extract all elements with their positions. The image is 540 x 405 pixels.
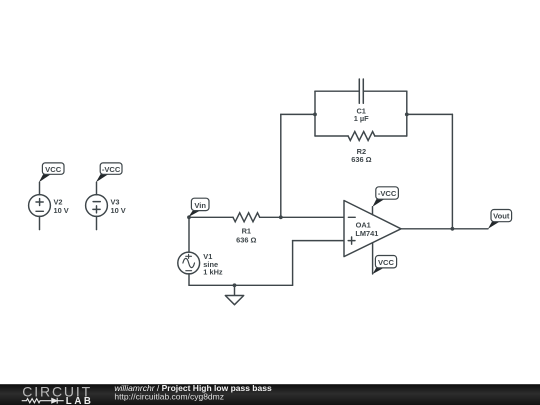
node junction output xyxy=(451,227,455,231)
node junction Vin xyxy=(187,215,191,219)
wire xyxy=(364,90,407,92)
svg-text:1 µF: 1 µF xyxy=(354,114,369,123)
wire xyxy=(372,243,374,274)
wire xyxy=(39,182,41,194)
wire xyxy=(189,216,233,218)
voltage source V3 xyxy=(86,195,108,217)
wire xyxy=(314,91,316,136)
wire xyxy=(280,114,282,217)
resistor R1 xyxy=(233,213,260,222)
svg-text:VCC: VCC xyxy=(378,258,395,267)
wire xyxy=(96,182,98,194)
svg-text:VCC: VCC xyxy=(45,165,62,174)
node junction ground xyxy=(233,283,237,287)
wire xyxy=(401,228,488,230)
wire xyxy=(375,135,407,137)
svg-text:Vin: Vin xyxy=(194,201,206,210)
wire xyxy=(315,90,359,92)
svg-text:LAB: LAB xyxy=(66,396,94,405)
net flag Vout xyxy=(488,210,512,229)
node junction block left xyxy=(313,113,317,117)
svg-text:Vout: Vout xyxy=(493,212,510,221)
wire xyxy=(188,217,190,252)
wire xyxy=(293,240,344,242)
svg-text:LM741: LM741 xyxy=(355,229,378,238)
footer bar xyxy=(0,384,540,405)
voltage source V1 xyxy=(178,252,200,274)
svg-text:1 kHz: 1 kHz xyxy=(203,268,223,277)
net flag VCC at OA1 xyxy=(373,256,397,275)
net flag Vin xyxy=(188,198,209,217)
wire xyxy=(96,216,98,229)
voltage source V2 xyxy=(29,195,51,217)
node junction block right xyxy=(405,113,409,117)
wire xyxy=(234,285,236,295)
net flag -VCC at OA1 xyxy=(373,187,399,207)
svg-text:10 V: 10 V xyxy=(111,206,126,215)
wire xyxy=(260,216,344,218)
wire xyxy=(281,113,315,115)
wire xyxy=(315,135,348,137)
svg-text:-VCC: -VCC xyxy=(102,165,121,174)
op-amp OA1 xyxy=(344,201,401,257)
svg-text:http://circuitlab.com/cyg8dmz: http://circuitlab.com/cyg8dmz xyxy=(114,391,224,401)
CircuitLab logo wordmark xyxy=(22,383,93,405)
net flag -VCC at V3 xyxy=(96,163,122,182)
CircuitLab logo resistor-diode glyph xyxy=(22,398,64,404)
wire xyxy=(407,113,453,115)
wire xyxy=(406,91,408,136)
wire xyxy=(292,241,294,286)
svg-text:-VCC: -VCC xyxy=(378,189,397,198)
wire xyxy=(39,216,41,229)
resistor R2 xyxy=(348,132,375,141)
wire xyxy=(372,207,374,215)
wire xyxy=(189,284,293,286)
svg-text:10 V: 10 V xyxy=(54,206,69,215)
wire xyxy=(451,114,453,228)
wire xyxy=(188,274,190,285)
ground xyxy=(225,296,243,305)
capacitor C1 xyxy=(359,79,363,103)
svg-text:636 Ω: 636 Ω xyxy=(236,235,256,244)
node junction feedback tap xyxy=(279,215,283,219)
net flag VCC at V2 xyxy=(39,163,64,182)
svg-text:R1: R1 xyxy=(242,226,251,235)
svg-text:636 Ω: 636 Ω xyxy=(351,155,371,164)
